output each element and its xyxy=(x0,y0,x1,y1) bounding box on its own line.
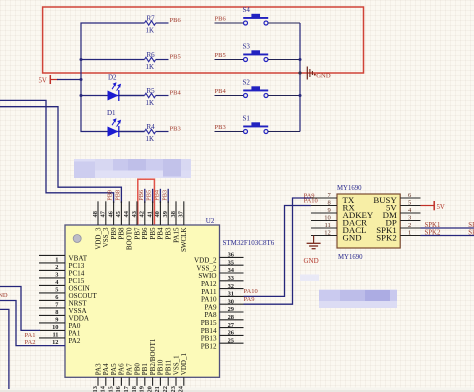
svg-text:5V: 5V xyxy=(39,78,47,85)
svg-text:1K: 1K xyxy=(146,135,155,143)
svg-text:1K: 1K xyxy=(146,99,155,107)
svg-text:GND: GND xyxy=(0,292,8,299)
svg-text:45: 45 xyxy=(115,211,122,217)
svg-text:15: 15 xyxy=(107,386,114,392)
svg-text:VSS_2: VSS_2 xyxy=(196,264,217,272)
svg-text:PA10: PA10 xyxy=(244,288,258,295)
svg-text:39: 39 xyxy=(162,211,169,217)
svg-text:D1: D1 xyxy=(107,109,116,117)
svg-text:PB4: PB4 xyxy=(215,88,227,95)
pin 35 (VSS_2) right xyxy=(196,259,243,272)
pin 1 (SPK2) xyxy=(376,230,420,243)
wire PB6 to S4 xyxy=(215,22,244,24)
wire 5V bus vertical xyxy=(81,23,145,132)
pin 8 (RX) xyxy=(311,200,355,213)
svg-text:U2: U2 xyxy=(206,217,215,225)
svg-text:PB15: PB15 xyxy=(201,319,217,327)
svg-text:PA15: PA15 xyxy=(172,227,180,243)
svg-text:PB6: PB6 xyxy=(138,190,145,201)
svg-text:34: 34 xyxy=(228,267,235,274)
svg-text:PB6: PB6 xyxy=(141,227,149,240)
pin 3 (PC14) left xyxy=(39,270,85,279)
svg-text:R6: R6 xyxy=(147,51,156,59)
pin 9 (VDDA) left xyxy=(39,315,90,324)
wire S3 to bus xyxy=(268,59,300,61)
svg-text:1: 1 xyxy=(408,230,411,237)
svg-text:PA3: PA3 xyxy=(94,363,102,375)
svg-text:3: 3 xyxy=(408,215,411,222)
svg-text:PA7: PA7 xyxy=(126,363,134,375)
pin 39 (PB3) top xyxy=(162,201,173,239)
wire GND/PA2 xyxy=(0,301,65,346)
wire SPK1 out xyxy=(421,227,474,229)
svg-text:18: 18 xyxy=(131,386,138,392)
svg-text:23: 23 xyxy=(170,386,177,392)
pin 46 (PB9) top xyxy=(107,201,118,239)
wire PA1 to pin11 xyxy=(0,287,40,331)
svg-text:PB2/BOOT1: PB2/BOOT1 xyxy=(149,338,157,375)
red GND wire rectangle xyxy=(43,7,364,73)
svg-text:VDD_3: VDD_3 xyxy=(94,227,102,250)
svg-text:32: 32 xyxy=(228,283,234,290)
svg-text:VDD_2: VDD_2 xyxy=(194,257,217,265)
pin 6 (OSCOUT) left xyxy=(39,292,98,301)
svg-text:S1: S1 xyxy=(243,115,251,123)
pin 7 (NRST) left xyxy=(39,300,87,309)
svg-text:5V: 5V xyxy=(437,204,445,211)
pin 27 (PB14) right xyxy=(201,322,244,335)
pin 11 (DACL) xyxy=(311,222,366,235)
pin 28 (PB15) right xyxy=(201,314,244,327)
svg-text:PB7: PB7 xyxy=(133,227,141,240)
svg-text:PB3: PB3 xyxy=(215,124,226,131)
svg-text:SPK2: SPK2 xyxy=(425,230,441,237)
resistor R6 xyxy=(145,51,156,71)
svg-text:PB5: PB5 xyxy=(215,52,226,59)
pin 29 (PA8) right xyxy=(205,306,244,319)
wire net PB8 to pin45 xyxy=(0,107,121,203)
junction dots button bus xyxy=(298,58,301,97)
svg-text:9: 9 xyxy=(328,207,331,214)
svg-text:PA1: PA1 xyxy=(25,332,36,339)
pin 18 (PB0) bottom xyxy=(131,363,142,392)
svg-text:PB10: PB10 xyxy=(157,359,165,375)
svg-text:PB9: PB9 xyxy=(107,190,114,201)
svg-text:25: 25 xyxy=(228,337,234,344)
svg-text:PA6: PA6 xyxy=(118,363,126,375)
svg-text:SPK1: SPK1 xyxy=(425,222,441,229)
wire PA10 pin31 to MY1690 RX xyxy=(244,206,312,297)
pin 14 (PA4) bottom xyxy=(100,363,111,392)
svg-text:S3: S3 xyxy=(243,43,251,51)
wire button bus vertical xyxy=(299,23,301,132)
wire D2 to R5 xyxy=(119,95,145,97)
pin 37 (SWCLK) top xyxy=(178,201,189,252)
pin 33 (PA12) right xyxy=(201,275,244,288)
svg-text:GND: GND xyxy=(316,73,331,80)
svg-text:VSS_1: VSS_1 xyxy=(172,355,180,375)
svg-text:30: 30 xyxy=(228,298,234,305)
svg-text:PB5: PB5 xyxy=(146,190,153,201)
svg-text:MY1690: MY1690 xyxy=(337,185,362,192)
svg-text:PB5: PB5 xyxy=(149,227,157,240)
pin 44 (BOOT0) top xyxy=(123,201,134,250)
pin 4 (DM) xyxy=(383,207,421,220)
svg-text:R4: R4 xyxy=(147,123,156,131)
wire S4 to bus xyxy=(268,22,300,24)
ground GND (top) xyxy=(307,67,331,80)
pin 43 (PB7) top xyxy=(131,201,142,239)
wire stub PB4 pin40 xyxy=(159,189,161,203)
svg-text:40: 40 xyxy=(154,211,161,217)
svg-text:PB6: PB6 xyxy=(170,17,182,24)
pin 40 (PB4) top xyxy=(154,201,165,239)
wire S2 to bus xyxy=(268,95,300,97)
svg-text:27: 27 xyxy=(228,322,235,329)
svg-text:14: 14 xyxy=(100,385,107,392)
svg-text:PB0: PB0 xyxy=(133,363,141,376)
wire R5 out xyxy=(156,95,169,97)
svg-text:MY1690: MY1690 xyxy=(338,254,363,261)
pin 22 (PB11) bottom xyxy=(162,359,173,392)
LED D1 xyxy=(107,109,121,137)
svg-text:1K: 1K xyxy=(146,26,155,34)
svg-text:GND: GND xyxy=(304,257,319,265)
svg-text:38: 38 xyxy=(170,211,177,217)
power 5V (left) xyxy=(39,75,59,85)
svg-text:PB3: PB3 xyxy=(161,190,168,201)
wire row R6 xyxy=(81,59,145,61)
svg-text:PA4: PA4 xyxy=(102,363,110,375)
switch S3 xyxy=(243,43,269,62)
bottom edge strip xyxy=(0,388,474,392)
pin 5 (OSCIN) left xyxy=(39,285,90,294)
pin 2 (SPK1) xyxy=(376,222,420,235)
svg-text:BOOT0: BOOT0 xyxy=(126,227,134,250)
svg-text:1K: 1K xyxy=(146,63,155,71)
svg-text:12: 12 xyxy=(324,230,331,237)
svg-text:PA8: PA8 xyxy=(205,311,217,319)
pin 26 (PB13) right xyxy=(201,330,244,343)
pin 2 (PC13) left xyxy=(39,262,85,271)
svg-text:PB3: PB3 xyxy=(170,126,181,133)
pin 3 (DP) xyxy=(386,215,421,228)
svg-text:PA2: PA2 xyxy=(25,339,36,346)
wire R7 out xyxy=(156,22,169,24)
svg-text:26: 26 xyxy=(228,330,235,337)
svg-text:37: 37 xyxy=(178,210,185,217)
svg-text:D2: D2 xyxy=(108,73,117,81)
wire stub PB5 pin41 xyxy=(152,189,154,203)
wire R6 out xyxy=(156,59,169,61)
pin 16 (PA6) bottom xyxy=(115,363,126,392)
svg-text:PB8: PB8 xyxy=(114,190,121,201)
pin 41 (PB5) top xyxy=(146,201,157,239)
wire SPK2 out xyxy=(421,235,474,237)
wire PA9 pin30 to MY1690 TX xyxy=(244,198,312,304)
switch S4 xyxy=(243,6,269,25)
wire PB4 to S2 xyxy=(215,95,244,97)
svg-text:46: 46 xyxy=(107,210,114,217)
svg-text:41: 41 xyxy=(146,211,153,217)
svg-text:11: 11 xyxy=(325,222,331,229)
svg-text:R5: R5 xyxy=(147,87,156,95)
svg-text:33: 33 xyxy=(228,275,234,282)
pin 17 (PA7) bottom xyxy=(123,363,134,392)
switch S1 xyxy=(243,115,269,134)
wire stub PB6 pin42 xyxy=(144,189,146,203)
svg-text:20: 20 xyxy=(146,386,153,392)
svg-text:PB14: PB14 xyxy=(201,327,217,335)
svg-text:PA10: PA10 xyxy=(304,198,318,205)
wire PB5 to S3 xyxy=(215,59,244,61)
svg-text:PB6: PB6 xyxy=(215,15,227,22)
pin 8 (VSSA) left xyxy=(39,307,88,316)
svg-text:PA9: PA9 xyxy=(205,303,217,311)
pin 31 (PA10) right xyxy=(201,291,244,304)
svg-text:48: 48 xyxy=(92,211,99,217)
wire D1 to R4 xyxy=(119,131,145,133)
pin 20 (PB2/BOOT1) bottom xyxy=(146,338,157,392)
pin 4 (PC15) left xyxy=(39,277,85,286)
wire 5V to bus xyxy=(57,79,81,81)
svg-text:8: 8 xyxy=(328,200,331,207)
pin 6 (BUSY) xyxy=(373,192,420,205)
pin 11 (PA1) left xyxy=(39,330,81,339)
svg-text:PB12: PB12 xyxy=(201,342,217,350)
pin 19 (PB1) bottom xyxy=(139,363,150,392)
pin 24 (VDD_1) bottom xyxy=(178,353,189,392)
svg-text:21: 21 xyxy=(154,386,161,392)
svg-text:PA12: PA12 xyxy=(201,280,217,288)
svg-text:13: 13 xyxy=(92,386,99,392)
svg-text:16: 16 xyxy=(115,385,122,392)
svg-text:42: 42 xyxy=(139,211,146,217)
ground GND (below MY1690) xyxy=(304,236,321,265)
pin 1 (VBAT) left xyxy=(39,255,88,264)
svg-text:R7: R7 xyxy=(147,14,156,22)
svg-text:43: 43 xyxy=(131,211,138,217)
wire PB3 to S1 xyxy=(215,131,244,133)
pin 32 (PA11) right xyxy=(201,283,243,296)
svg-text:47: 47 xyxy=(100,210,107,217)
pin 21 (PB10) bottom xyxy=(154,359,165,392)
svg-text:VSS_3: VSS_3 xyxy=(102,227,110,247)
resistor R7 xyxy=(145,14,156,34)
pin 23 (VSS_1) bottom xyxy=(170,355,181,392)
pin 12 (GND) xyxy=(311,230,362,243)
blur patch censored top xyxy=(74,159,191,178)
svg-text:22: 22 xyxy=(162,386,169,392)
svg-text:36: 36 xyxy=(228,252,235,259)
wire S1 to bus xyxy=(268,131,300,133)
svg-text:GND: GND xyxy=(343,233,362,243)
svg-text:S2: S2 xyxy=(243,79,251,87)
svg-text:VDD_1: VDD_1 xyxy=(180,353,188,376)
pin 45 (PB8) top xyxy=(115,201,126,239)
pin 48 (VDD_3) top xyxy=(92,201,103,249)
svg-text:STM32F103C8T6: STM32F103C8T6 xyxy=(223,239,275,247)
pin 34 (SWIO) right xyxy=(198,267,243,280)
svg-text:SPK2: SPK2 xyxy=(376,233,397,243)
power 5V (right of MY1690) xyxy=(421,201,445,211)
svg-text:SPK1: SPK1 xyxy=(468,222,474,229)
pin 15 (PA5) bottom xyxy=(107,363,118,392)
pin 12 (PA2) left xyxy=(39,337,81,346)
svg-text:PB4: PB4 xyxy=(170,90,182,97)
resistor R5 xyxy=(145,87,156,107)
pin 7 (TX) xyxy=(311,192,355,205)
svg-text:PB9: PB9 xyxy=(110,227,118,240)
red highlight box PB6/PB5 xyxy=(138,179,155,242)
junction dots 5V bus xyxy=(80,58,83,97)
pin 13 (PA3) bottom xyxy=(92,363,103,392)
blur patch censored right xyxy=(300,275,397,309)
pin 36 (VDD_2) right xyxy=(194,252,243,265)
svg-text:SWIO: SWIO xyxy=(198,272,216,280)
svg-text:PA11: PA11 xyxy=(201,288,217,296)
svg-text:PA10: PA10 xyxy=(201,296,217,304)
svg-text:PB8: PB8 xyxy=(118,227,126,240)
svg-text:19: 19 xyxy=(139,386,146,392)
svg-text:SWCLK: SWCLK xyxy=(180,228,188,253)
svg-text:PA9: PA9 xyxy=(244,296,255,303)
pin 42 (PB6) top xyxy=(139,201,150,239)
svg-text:PB5: PB5 xyxy=(170,54,181,61)
pin 47 (VSS_3) top xyxy=(100,201,111,247)
svg-text:28: 28 xyxy=(228,314,234,321)
svg-text:10: 10 xyxy=(324,215,331,222)
pin 9 (ADKEY) xyxy=(311,207,374,220)
svg-text:31: 31 xyxy=(228,291,234,298)
svg-text:24: 24 xyxy=(178,385,185,392)
wire stub PB3 pin39 xyxy=(167,189,169,203)
svg-text:35: 35 xyxy=(228,259,234,266)
svg-text:PB11: PB11 xyxy=(165,359,173,375)
pin 10 (PA0) left xyxy=(39,322,81,331)
pin 38 (PA15) top xyxy=(170,201,181,243)
LED D2 xyxy=(108,73,122,101)
svg-text:SPK2: SPK2 xyxy=(468,230,474,237)
svg-text:PB4: PB4 xyxy=(157,227,165,240)
svg-text:S4: S4 xyxy=(243,6,251,14)
svg-text:29: 29 xyxy=(228,306,234,313)
svg-text:PA2: PA2 xyxy=(69,337,81,345)
svg-text:17: 17 xyxy=(123,385,130,392)
svg-text:PB3: PB3 xyxy=(165,227,173,240)
switch S2 xyxy=(243,79,269,98)
svg-text:PB1: PB1 xyxy=(141,363,149,376)
wire left vertical to bottom xyxy=(0,309,9,389)
wire row R5 xyxy=(81,95,145,97)
svg-text:PB13: PB13 xyxy=(201,335,217,343)
pin 5 (5V) xyxy=(386,200,420,213)
svg-text:5: 5 xyxy=(408,200,411,207)
pin 25 (PB12) right xyxy=(201,337,244,350)
svg-text:44: 44 xyxy=(123,210,130,217)
svg-text:2: 2 xyxy=(408,222,411,229)
svg-text:PA5: PA5 xyxy=(110,363,118,375)
wire net PB9 to pin46 xyxy=(0,100,114,203)
resistor R4 xyxy=(145,123,156,143)
pin 10 (DACR) xyxy=(311,215,367,228)
pin 30 (PA9) right xyxy=(205,298,244,311)
wire R4 out xyxy=(156,131,169,133)
op-amp U2 body (STM32F103C8T6) xyxy=(65,225,220,377)
